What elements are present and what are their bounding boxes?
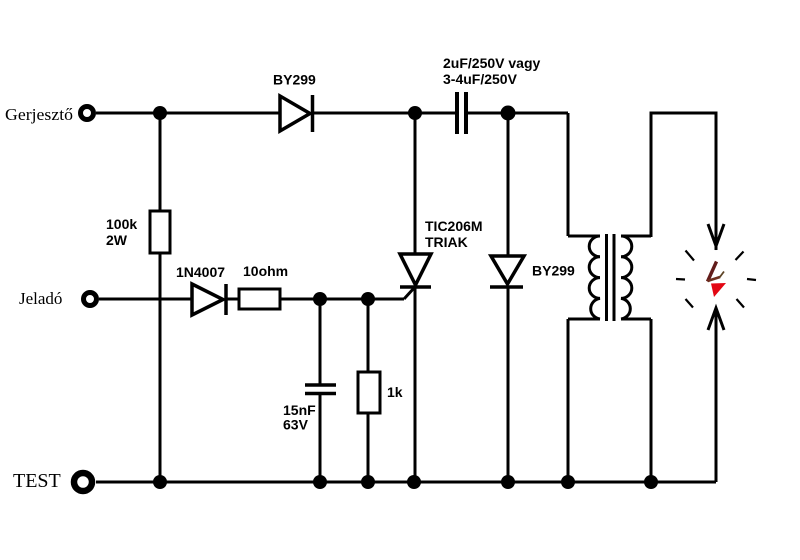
svg-text:Jeladó: Jeladó xyxy=(19,289,62,308)
svg-text:1N4007: 1N4007 xyxy=(176,264,225,280)
svg-text:Gerjesztő: Gerjesztő xyxy=(5,105,73,124)
svg-text:10ohm: 10ohm xyxy=(243,263,288,279)
svg-text:63V: 63V xyxy=(283,417,309,433)
svg-text:BY299: BY299 xyxy=(532,263,575,279)
svg-text:TEST: TEST xyxy=(13,470,61,492)
svg-text:BY299: BY299 xyxy=(273,72,316,88)
svg-text:2W: 2W xyxy=(106,232,128,248)
svg-text:3-4uF/250V: 3-4uF/250V xyxy=(443,71,518,87)
svg-text:TRIAK: TRIAK xyxy=(425,234,468,250)
svg-text:TIC206M: TIC206M xyxy=(425,218,483,234)
svg-text:1k: 1k xyxy=(387,384,403,400)
svg-text:2uF/250V vagy: 2uF/250V vagy xyxy=(443,55,540,71)
svg-text:100k: 100k xyxy=(106,216,137,232)
